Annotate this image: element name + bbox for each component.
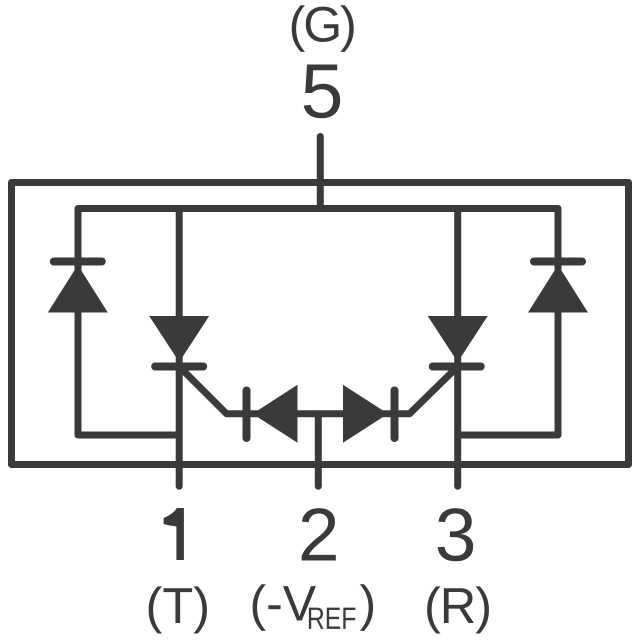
svg-text:(T): (T) xyxy=(146,577,210,634)
svg-text:5: 5 xyxy=(301,49,344,135)
svg-text:(G): (G) xyxy=(289,0,355,53)
svg-text:): ) xyxy=(360,576,377,632)
svg-text:2: 2 xyxy=(298,493,340,577)
svg-text:3: 3 xyxy=(435,493,477,577)
svg-text:(-V: (-V xyxy=(250,576,317,632)
svg-text:(R): (R) xyxy=(424,577,491,634)
